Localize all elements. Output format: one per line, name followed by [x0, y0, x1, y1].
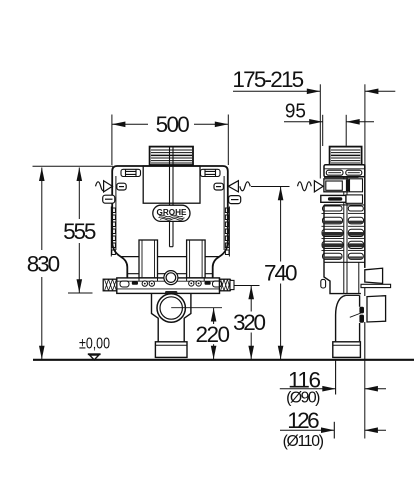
side tab left (frame fixing): [103, 195, 115, 203]
dimension 126 line: [280, 429, 335, 431]
wall plate (side view): [361, 284, 391, 287]
dimension 500 extension lines: [111, 115, 113, 166]
frame leg left: [139, 240, 158, 278]
tank inner wall line left: [115, 176, 117, 250]
pointer line in elbow: [350, 313, 361, 317]
svg-text:320: 320: [233, 310, 266, 335]
mounting slot left (tank top): [121, 169, 141, 176]
dimension 320 top reference: [235, 285, 260, 287]
svg-text:(Ø110): (Ø110): [283, 433, 324, 450]
bracket slot right: [213, 281, 222, 287]
bracket dark pill left: [132, 281, 138, 285]
bracket end block left (knurled): [103, 279, 117, 291]
flush pipe (front view, vertical): [170, 147, 174, 247]
side tab lower left: [321, 279, 326, 288]
wire: top reference line (top of frame, left): [33, 165, 114, 167]
frame leg right: [187, 240, 206, 278]
dimension 740 line: [280, 187, 282, 262]
bracket centre dark pill: [165, 291, 177, 294]
dimension 116 line: [280, 388, 336, 390]
wall reference line below floor: [364, 361, 366, 439]
inlet arrow (side view): [298, 181, 324, 192]
filling valve service box (front view): [143, 166, 200, 203]
outlet socket circle (above bracket): [164, 271, 178, 285]
flange strip right with notches: [225, 207, 229, 257]
tank bottom inner edge: [121, 256, 219, 258]
floor level triangle symbol: [88, 353, 101, 355]
floor line: [33, 359, 414, 361]
water inlet clip left: [117, 183, 126, 190]
side view frame rails with rungs: [324, 205, 365, 268]
inlet arrow left (wavy water supply symbol): [96, 181, 113, 192]
water inlet housing (side view): [324, 177, 363, 191]
svg-text:740: 740: [264, 261, 298, 286]
mounting bracket bar: [117, 278, 220, 294]
drain pipe below floor (Ø90 edge): [335, 361, 337, 395]
bracket screws left pair: [142, 281, 154, 286]
wire: rear wall edge segments: [364, 288, 366, 296]
dimension 555 line: [78, 168, 80, 220]
frame leg stubs into bracket: [139, 278, 204, 281]
dimension 175-215 extension lines: [319, 84, 321, 178]
dimension 740 top reference: [251, 186, 290, 188]
svg-text:175-215: 175-215: [232, 67, 304, 92]
dimension 320 line: [250, 286, 252, 312]
outlet stub lower (side view, through wall): [367, 296, 386, 322]
bracket end block right (knurled): [220, 279, 235, 291]
outlet housing box (front): [152, 293, 191, 341]
flush elbow (side view): [336, 295, 360, 341]
supply stub upper (side view, through wall): [365, 268, 383, 283]
tank inner wall line right: [223, 176, 225, 250]
inlet arrow right (wavy water supply symbol): [228, 181, 250, 192]
svg-text:95: 95: [285, 100, 306, 123]
water inlet clip right: [214, 183, 223, 190]
bracket dark pill right: [205, 281, 211, 285]
flush bend cap (front view, corrugated): [150, 147, 193, 165]
side view flush pipe centre lines: [344, 177, 347, 294]
skirt bottom edge: [128, 273, 213, 275]
side view top housing: [324, 165, 365, 177]
svg-text:220: 220: [196, 322, 231, 347]
side view lower body: [324, 262, 361, 293]
svg-text:500: 500: [156, 112, 190, 137]
svg-text:116: 116: [288, 367, 321, 392]
side view lower body inner edge: [358, 262, 360, 293]
outlet collar (front): [155, 342, 187, 358]
svg-text:(Ø90): (Ø90): [286, 390, 320, 407]
cistern tank outline (front view): [112, 166, 228, 278]
svg-text:±0,00: ±0,00: [79, 336, 110, 353]
outlet collar (side view): [333, 342, 361, 358]
svg-text:830: 830: [27, 251, 60, 276]
side tab right (frame fixing): [229, 196, 241, 204]
svg-text:555: 555: [63, 219, 96, 244]
elbow gasket (dark): [359, 307, 364, 314]
flush bend cap (side view, corrugated): [330, 147, 362, 165]
mounting slot right (tank top): [201, 169, 221, 176]
GROHE logo: [153, 205, 190, 221]
actuator rod housing (side view): [321, 195, 363, 203]
drain pipe below floor (Ø110 edge): [333, 422, 335, 439]
dimension 220 line: [213, 308, 215, 324]
dimension 500 line: [112, 123, 148, 125]
node: outlet centre line: [171, 307, 222, 309]
dimension 830 line: [41, 168, 43, 251]
dimension 555 bottom reference: [68, 292, 93, 294]
side view body right edge: [364, 165, 366, 268]
svg-text:126: 126: [287, 408, 319, 433]
bracket slot left: [120, 281, 129, 287]
bracket screws right pair: [189, 281, 202, 286]
dimension 175-215 line: [233, 90, 320, 92]
dimension 95 extension lines: [322, 115, 324, 146]
flange strip left with notches: [111, 207, 115, 257]
dimension 95 line: [284, 121, 323, 123]
outlet elbow circles (front): [157, 294, 185, 322]
